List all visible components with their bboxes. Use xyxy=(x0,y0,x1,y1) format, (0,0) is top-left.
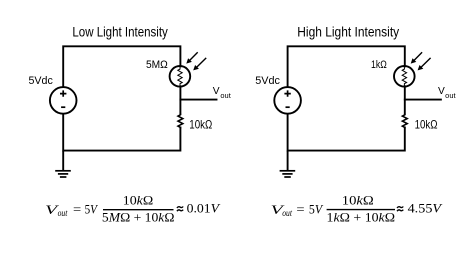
svg-text:10kΩ: 10kΩ xyxy=(415,118,438,131)
svg-text:V: V xyxy=(213,86,220,97)
svg-text:out: out xyxy=(58,208,68,218)
svg-text:5MΩ: 5MΩ xyxy=(146,59,168,71)
svg-text:=: = xyxy=(73,202,81,216)
svg-text:out: out xyxy=(220,93,230,100)
svg-text:10kΩ: 10kΩ xyxy=(123,193,154,207)
svg-text:out: out xyxy=(445,93,455,100)
svg-text:5V: 5V xyxy=(85,202,99,216)
svg-text:5MΩ + 10kΩ: 5MΩ + 10kΩ xyxy=(102,211,175,225)
svg-text:V: V xyxy=(438,86,445,97)
svg-text:out: out xyxy=(282,208,292,218)
svg-text:High Light Intensity: High Light Intensity xyxy=(297,25,399,40)
svg-text:5Vdc: 5Vdc xyxy=(255,75,280,87)
svg-text:1kΩ: 1kΩ xyxy=(371,59,387,71)
svg-text:4.55V: 4.55V xyxy=(408,202,443,216)
svg-text:0.01V: 0.01V xyxy=(187,202,221,216)
svg-text:10kΩ: 10kΩ xyxy=(342,193,374,207)
svg-text:=: = xyxy=(296,202,304,216)
svg-text:10kΩ: 10kΩ xyxy=(189,118,212,131)
svg-text:1kΩ + 10kΩ: 1kΩ + 10kΩ xyxy=(327,211,396,225)
svg-text:5V: 5V xyxy=(309,202,324,216)
svg-text:5Vdc: 5Vdc xyxy=(29,75,54,87)
svg-text:Low Light Intensity: Low Light Intensity xyxy=(72,25,167,40)
